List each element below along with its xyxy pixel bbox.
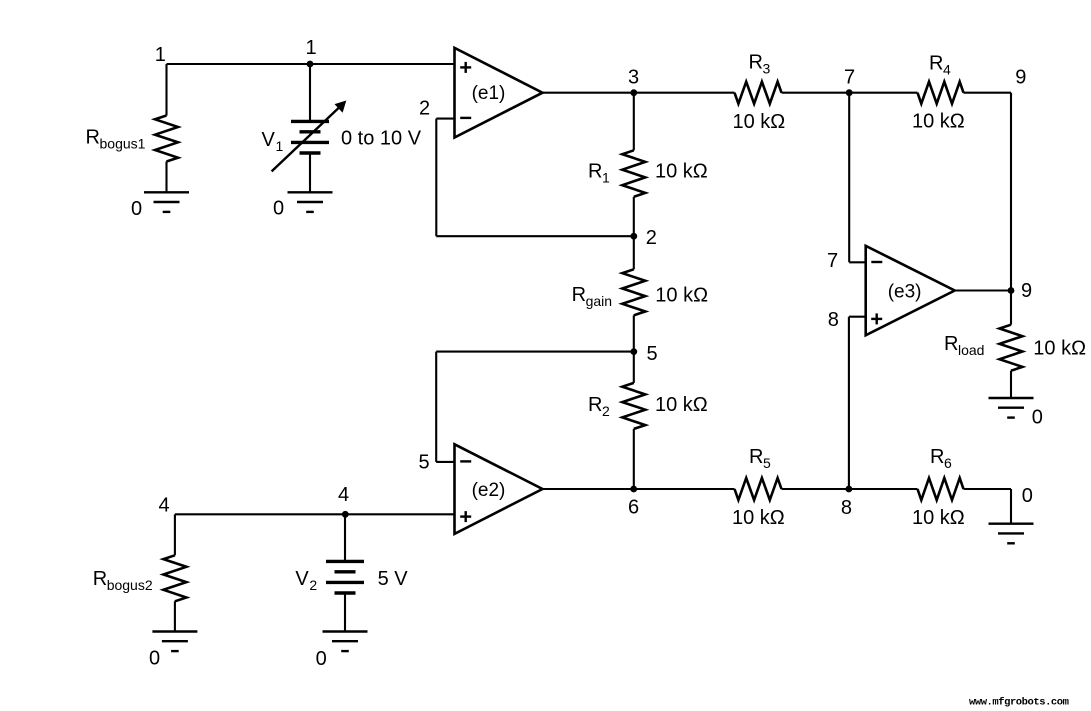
svg-text:1: 1	[602, 170, 610, 186]
resistor Rbogus1	[155, 116, 178, 162]
resistor Rbogus2	[163, 555, 186, 601]
wire Rbogus1 top	[165, 64, 167, 116]
wire e2 output to R5	[543, 488, 735, 490]
resistor Rload	[1000, 325, 1023, 371]
wire e1 inverting input stub	[436, 118, 454, 120]
svg-text:gain: gain	[586, 293, 612, 309]
svg-text:R: R	[749, 52, 763, 74]
svg-text:R: R	[749, 446, 763, 468]
svg-text:0: 0	[1032, 407, 1043, 429]
svg-text:R: R	[86, 127, 100, 149]
svg-text:2: 2	[419, 98, 430, 120]
svg-text:(e2): (e2)	[472, 480, 506, 501]
resistor R4	[918, 82, 964, 104]
svg-text:3: 3	[763, 61, 771, 77]
svg-text:R: R	[588, 161, 602, 183]
svg-text:10 kΩ: 10 kΩ	[1033, 338, 1086, 360]
wire node5 horizontal	[436, 351, 634, 353]
node 4 junction dot	[342, 511, 349, 518]
svg-text:V: V	[262, 129, 276, 151]
source V1 battery	[291, 120, 329, 123]
svg-text:10 kΩ: 10 kΩ	[912, 507, 965, 529]
node 2 junction dot	[630, 233, 637, 240]
svg-text:6: 6	[944, 455, 952, 471]
wire node2 to Rgain	[633, 236, 635, 269]
svg-text:bogus1: bogus1	[100, 136, 146, 152]
svg-text:9: 9	[1021, 280, 1032, 302]
node 9 junction dot	[1008, 287, 1015, 294]
svg-text:(e3): (e3)	[888, 282, 922, 303]
op-amp e3 minus marker	[871, 261, 882, 263]
svg-text:2: 2	[602, 403, 610, 419]
svg-text:2: 2	[309, 577, 317, 593]
variable arrow V1	[272, 104, 343, 171]
svg-text:10 kΩ: 10 kΩ	[655, 394, 708, 416]
node 3 junction dot	[630, 89, 637, 96]
node 6 junction dot	[630, 486, 637, 493]
wire R1 to node2	[633, 197, 635, 236]
wire V1 bottom	[309, 153, 311, 192]
resistor R6	[918, 478, 964, 500]
op-amp e2 plus marker	[460, 515, 471, 517]
resistor R1	[622, 150, 645, 197]
svg-text:www.mfgrobots.com: www.mfgrobots.com	[969, 697, 1069, 709]
wire R3 to R4	[782, 92, 918, 94]
wire e3 inverting input stub	[849, 261, 866, 263]
svg-text:1: 1	[276, 138, 284, 154]
node 7 junction dot	[846, 89, 853, 96]
svg-text:R: R	[929, 53, 943, 75]
op-amp e1 minus marker	[460, 117, 471, 119]
svg-text:R: R	[588, 394, 602, 416]
resistor Rgain	[622, 269, 645, 315]
svg-text:0: 0	[273, 198, 284, 220]
svg-text:R: R	[572, 284, 586, 306]
svg-text:5: 5	[647, 343, 658, 365]
wire Rbogus1 bottom	[165, 162, 167, 193]
svg-text:1: 1	[155, 44, 166, 66]
wire V2 top	[344, 514, 346, 561]
svg-text:R: R	[930, 446, 944, 468]
svg-text:1: 1	[306, 37, 317, 59]
resistor R3	[735, 82, 782, 104]
ground Rbogus2	[152, 630, 197, 632]
wire V2 bottom	[344, 593, 346, 632]
svg-text:7: 7	[844, 67, 855, 89]
wire Rbogus2 top	[174, 514, 176, 555]
wire R4 to corner	[964, 92, 1012, 94]
wire R6 to ground corner	[964, 488, 1012, 490]
svg-text:R: R	[93, 568, 107, 590]
svg-text:load: load	[958, 342, 984, 358]
op-amp e3 plus marker	[871, 318, 882, 320]
op-amp e3	[866, 246, 955, 335]
svg-text:0: 0	[1022, 485, 1033, 507]
ground Rbogus1	[144, 191, 189, 193]
svg-text:V: V	[295, 568, 309, 590]
svg-text:(e1): (e1)	[472, 83, 506, 104]
wire e2 inverting input stub	[436, 461, 454, 463]
wire e1 feedback vertical	[435, 119, 437, 237]
svg-text:10 kΩ: 10 kΩ	[733, 111, 786, 133]
svg-text:bogus2: bogus2	[107, 577, 153, 593]
wire e2 feedback vertical	[435, 352, 437, 462]
svg-text:R: R	[944, 333, 958, 355]
node 5 junction dot	[630, 348, 637, 355]
wire V1 top	[309, 64, 311, 121]
ground R6	[989, 523, 1034, 525]
wire e3 noninverting input stub	[849, 316, 866, 318]
svg-text:5: 5	[419, 452, 430, 474]
wire R5 to node 8	[782, 488, 850, 490]
svg-text:0 to 10 V: 0 to 10 V	[341, 128, 422, 150]
svg-text:7: 7	[827, 250, 838, 272]
svg-text:2: 2	[646, 227, 657, 249]
wire node 9 to Rload	[1010, 291, 1012, 325]
wire Rbogus2 bottom	[174, 601, 176, 631]
wire node 4 rail	[175, 513, 455, 515]
wire R2 to node6	[633, 429, 635, 489]
svg-text:10 kΩ: 10 kΩ	[655, 161, 708, 183]
wire R6 ground drop	[1010, 489, 1012, 524]
svg-text:5: 5	[763, 455, 771, 471]
wire node 7 vertical	[848, 93, 850, 263]
svg-text:9: 9	[1015, 66, 1026, 88]
svg-text:4: 4	[943, 62, 951, 78]
op-amp e1	[455, 48, 543, 138]
svg-text:10 kΩ: 10 kΩ	[655, 285, 708, 307]
op-amp e2	[455, 444, 543, 534]
svg-text:10 kΩ: 10 kΩ	[732, 507, 785, 529]
wire Rload to ground	[1010, 371, 1012, 398]
ground V2	[323, 630, 368, 632]
resistor R2	[622, 383, 645, 429]
svg-text:0: 0	[316, 648, 327, 670]
ground Rload	[989, 397, 1034, 399]
svg-text:0: 0	[131, 198, 142, 220]
svg-text:8: 8	[841, 497, 852, 519]
resistor R5	[735, 478, 782, 500]
ground V1	[288, 191, 333, 193]
wire node 8 vertical	[848, 317, 850, 489]
node 8 junction dot	[846, 486, 853, 493]
wire e1 output to R3	[543, 92, 735, 94]
wire Rgain to node5	[633, 315, 635, 351]
svg-text:3: 3	[628, 66, 639, 88]
wire node 8 to R6	[849, 488, 918, 490]
svg-text:4: 4	[338, 484, 349, 506]
svg-text:0: 0	[149, 648, 160, 670]
svg-text:5 V: 5 V	[378, 568, 409, 590]
wire node 1 top rail	[167, 63, 455, 65]
wire node3 to R1	[633, 93, 635, 151]
svg-text:6: 6	[628, 496, 639, 518]
wire e3 output	[955, 289, 1011, 291]
wire right vertical to node 9	[1010, 93, 1012, 291]
wire node5 to R2	[633, 352, 635, 383]
svg-text:10 kΩ: 10 kΩ	[912, 111, 965, 133]
svg-text:8: 8	[828, 309, 839, 331]
source V2 battery	[326, 560, 364, 563]
wire e1 feedback horizontal to node 2	[436, 235, 634, 237]
svg-text:4: 4	[159, 495, 170, 517]
node 1 junction dot	[307, 61, 314, 68]
op-amp e1 plus marker	[460, 66, 471, 68]
op-amp e2 minus marker	[460, 460, 471, 462]
